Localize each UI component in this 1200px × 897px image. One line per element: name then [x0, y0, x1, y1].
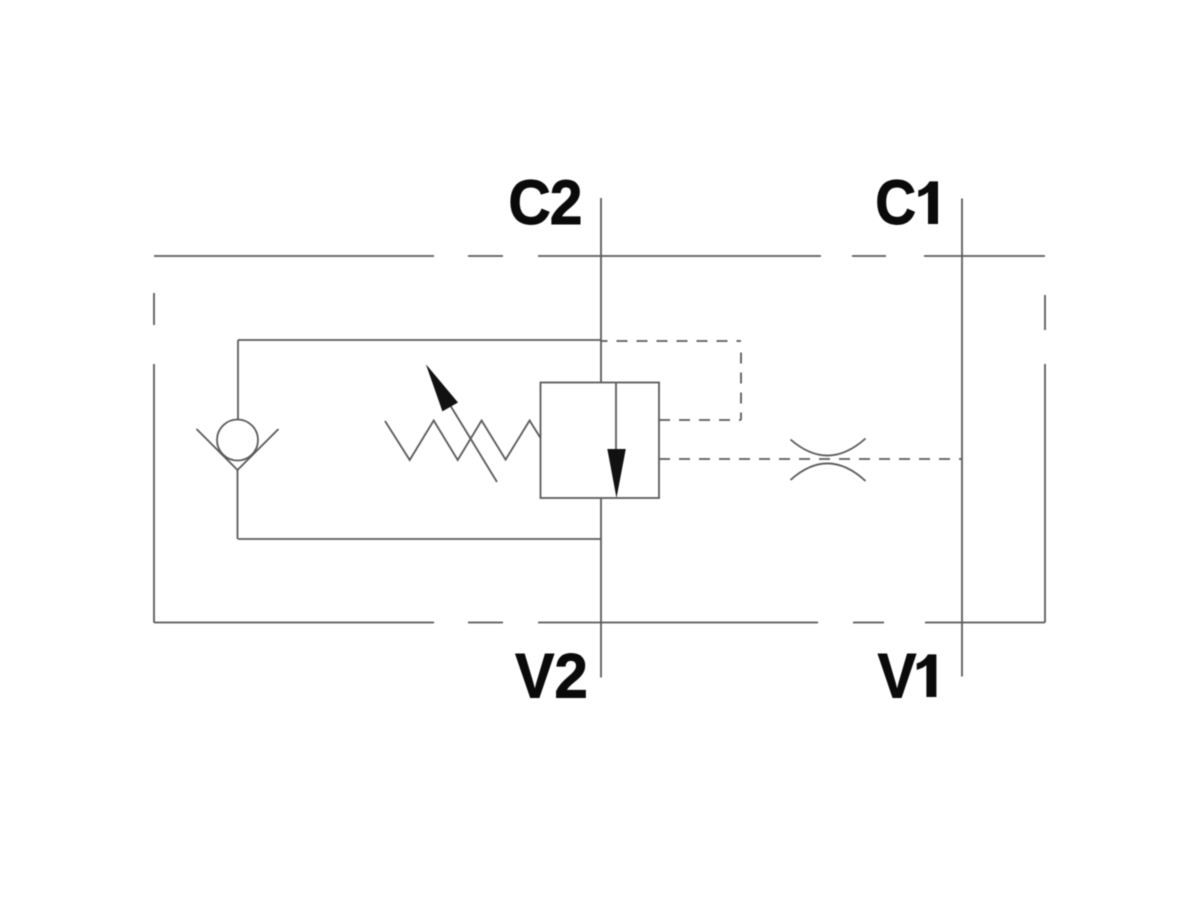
- svg-text:V: V: [878, 642, 917, 712]
- pilot line lower dashed to C1: [659, 458, 962, 460]
- check valve seat: [197, 429, 279, 470]
- check valve circle: [217, 420, 258, 461]
- spring: [385, 421, 541, 461]
- enclosure bottom dashed edge: [154, 622, 1045, 624]
- valve internal flow line: [615, 383, 617, 450]
- wire loop bottom: [238, 538, 601, 540]
- pilot line vertical dashed: [740, 353, 742, 421]
- port label V2: [515, 642, 588, 712]
- svg-text:2: 2: [550, 168, 583, 238]
- port label V1: [878, 642, 937, 712]
- svg-text:V: V: [515, 642, 554, 712]
- valve body U1: [541, 383, 660, 499]
- enclosure right dashed edge: [1044, 295, 1046, 623]
- adjustment arrow shaft: [449, 403, 498, 483]
- wire C2 vertical lower segment: [600, 498, 602, 678]
- port label C2: [508, 168, 582, 238]
- wire loop left lower: [237, 470, 239, 539]
- wire C2 vertical upper segment: [600, 198, 602, 383]
- port label C1: [875, 168, 938, 238]
- enclosure top dashed edge: [154, 255, 1045, 257]
- wire loop left upper: [237, 340, 239, 420]
- valve flow arrow: [607, 449, 626, 498]
- pilot line upper horizontal dashed: [601, 340, 741, 342]
- wire C1 vertical line: [961, 199, 963, 677]
- enclosure left dashed edge: [153, 293, 155, 623]
- orifice restriction: [791, 439, 866, 482]
- svg-text:2: 2: [554, 642, 588, 712]
- wire loop top: [238, 339, 601, 341]
- pilot line return horizontal dashed: [659, 419, 741, 421]
- svg-text:C: C: [508, 168, 550, 238]
- adjustment arrowhead: [426, 364, 458, 411]
- svg-text:C: C: [875, 168, 916, 238]
